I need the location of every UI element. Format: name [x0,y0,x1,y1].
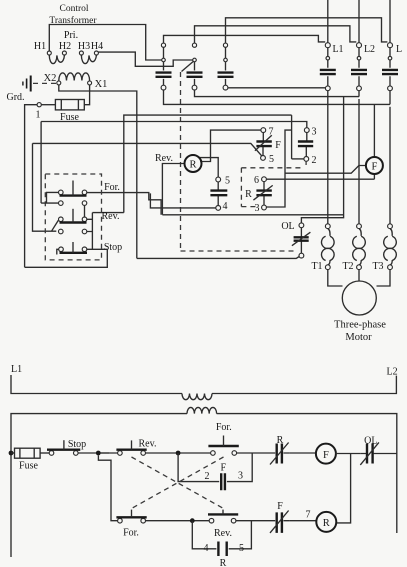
svg-text:Grd.: Grd. [6,92,24,103]
terminal 1 [37,103,41,107]
svg-text:Motor: Motor [345,332,372,343]
wire X2 common down [59,85,137,259]
pushbutton Rev NO ladder bottom [208,510,238,523]
power line L1 terminal [325,43,330,48]
label Three-phase Motor [334,320,386,344]
contact R NC 6-3 [253,177,272,210]
wire H1 to disconnect pole 1 hinge [49,25,161,61]
wire T3 to motor [377,270,391,286]
svg-text:3: 3 [255,203,260,214]
wire R coil return to OL feed [162,214,343,216]
coil F ladder [316,444,336,464]
transformer T1 secondary winding [59,73,90,81]
svg-text:R: R [220,558,227,567]
fuse ladder [11,448,40,458]
svg-text:Rev.: Rev. [155,153,173,164]
contact R NO 5-4 [210,177,227,210]
junction dot seal branch [176,451,181,456]
wire For pushbutton to R seal 4 [87,193,216,215]
wire stop right loop under station [25,249,108,267]
overload heater 3 [384,224,397,270]
label Control Transformer [49,4,97,41]
contact OL NC ladder [360,442,397,465]
svg-text:7: 7 [269,127,274,138]
wire H4 to disconnect pole 2 hinge [98,52,192,66]
svg-text:OL: OL [281,221,294,232]
svg-text:Rev.: Rev. [139,439,157,450]
contact F NC 7-5 [255,128,272,161]
svg-text:F: F [221,463,227,474]
overload heater 2 [353,224,366,270]
ladder transformer secondary [187,407,217,413]
svg-text:F: F [275,140,281,151]
pushbutton Stop NC [59,242,87,253]
wire X1 to fuse [84,85,89,105]
wire motor line 2 [358,99,360,224]
dashed mechanical link X [132,457,224,509]
wire station Rev link zigzag [52,220,59,231]
wire stop left stub [57,249,59,254]
svg-text:H3: H3 [78,41,90,52]
pushbutton station dashed box [45,174,101,260]
svg-text:7: 7 [306,510,311,521]
pushbutton Rev NO row [59,229,87,234]
coil R ladder [316,512,336,532]
dashed mechanical linkage vertical [181,72,297,251]
transformer T1 primary terminals [47,51,98,55]
terminal X2 [57,81,61,85]
contact R NC ladder [269,443,290,465]
pushbutton Rev NC row [59,209,87,223]
wire riser rung1 to rung2 [98,456,117,521]
svg-text:L2: L2 [364,44,375,55]
svg-text:Rev.: Rev. [214,528,232,539]
wire junction to Rev NC [101,452,118,454]
svg-text:Stop: Stop [68,439,86,450]
svg-text:R: R [277,435,284,446]
overload heater 1 [322,224,335,270]
svg-text:Stop: Stop [104,242,122,253]
wire dashed ground to X2 [33,82,56,84]
svg-text:L1: L1 [332,44,343,55]
svg-text:X1: X1 [95,79,108,90]
wire stop to junction [78,452,109,454]
ground symbol [23,76,31,92]
wire left pole1 output bus [164,90,391,104]
contact R seal plates [218,542,226,557]
svg-text:4: 4 [204,543,209,554]
label H1 H2 H3 H4 [34,41,103,52]
wire top rail L2 [212,376,396,394]
wire top rail L1 [11,375,182,394]
fused disconnect right pole 1 [320,48,336,91]
svg-text:L1: L1 [11,364,22,375]
terminal X1 [88,81,92,85]
wire Rev bottom to F NC [236,520,269,522]
pushbutton For NC row [59,181,87,196]
wire R seal 5 to R node [199,158,218,177]
svg-text:T2: T2 [342,261,353,272]
svg-text:6: 6 [254,175,259,186]
junction riser R coil [336,454,351,523]
ladder transformer primary [182,394,212,400]
svg-text:Pri.: Pri. [64,30,78,41]
wire 6 to F coil bottom [267,174,375,179]
svg-text:3: 3 [312,127,317,138]
wire hot corner bus to station [124,115,292,213]
disconnect switch left pole 1 [156,43,172,90]
contact OL NC [292,223,311,258]
svg-text:R: R [323,518,330,529]
svg-text:T1: T1 [311,261,322,272]
wire second rail right [217,414,397,533]
power line drops from top [328,0,390,43]
three-phase motor [342,281,376,315]
wire pole2 top to L2 [195,26,357,43]
junction dot rail rung [9,451,14,456]
svg-text:Control: Control [59,4,88,14]
svg-text:1: 1 [36,110,41,121]
pushbutton For NO row [59,201,87,206]
wire For NO right to Rev NC right [84,205,86,217]
wire bus 122 to NO contact 3 [41,122,307,128]
svg-text:5: 5 [269,154,274,165]
wire F coil to OL [335,453,360,455]
wire hot branch to F NC contact 5 [33,143,263,231]
svg-text:H2: H2 [59,41,71,52]
svg-text:Three-phase: Three-phase [334,320,386,331]
svg-text:For.: For. [104,182,120,193]
power line L2 terminal [357,43,362,48]
pushbutton For NC ladder bottom [116,510,146,523]
wire branch down to OL feed [301,97,343,223]
wire control return to OL [137,257,299,259]
wire Rev to For [146,452,211,454]
svg-text:L: L [396,44,402,55]
wire branch down to F coil [373,104,375,157]
svg-text:H1: H1 [34,41,46,52]
svg-text:3: 3 [238,471,243,482]
svg-text:4: 4 [223,201,228,212]
wire T1 to motor [328,270,343,286]
svg-text:F: F [277,501,283,512]
svg-text:OL: OL [364,436,377,447]
svg-text:F: F [371,162,377,173]
transformer T1 primary winding H1-H2 [49,55,64,63]
junction dot seal branch bottom [190,518,195,523]
wire 7 to R coil right [200,130,261,161]
junction dot after stop [96,451,101,456]
wire For to R contact [237,452,269,454]
svg-text:Fuse: Fuse [19,461,38,472]
svg-text:H4: H4 [91,41,103,52]
pushbutton Stop ladder NC [47,440,80,455]
wire motor line 3 [389,107,391,224]
svg-text:For.: For. [123,528,139,539]
wire R coil left down [162,164,184,215]
wire motor line 1 [327,91,329,224]
dashed enclosure box right [241,162,306,207]
wire tap to F coil left with jog [285,166,366,174]
wire fuse to stop [40,452,49,454]
svg-text:5: 5 [225,176,230,187]
svg-text:For.: For. [216,422,232,433]
wire left pole3 output to right pole1 [228,87,326,89]
disconnect switch left pole 3 [218,43,234,90]
wire F NC to R coil [290,520,317,522]
wire fuse to terminal 1 [41,104,55,106]
svg-text:5: 5 [239,543,244,554]
contact F NO 3-2 [298,128,313,162]
wire T2 to motor [358,270,360,281]
coil R [185,155,202,172]
wire pole1 top to L1 [164,35,326,43]
contact F seal plates [221,473,225,490]
svg-text:Rev.: Rev. [102,211,120,222]
wire station For link [41,192,58,203]
fuse control secondary [55,100,84,110]
seal branch R 4-5 [192,521,251,549]
pushbutton Rev NC ladder [116,440,146,455]
wire Rev rows to common riser [87,219,93,231]
wire left pole2 output bus [195,90,360,97]
seal branch F 2-3 [178,453,252,482]
svg-text:X2: X2 [44,73,57,84]
wire terminal 1 hot down left side [25,105,37,268]
contact F NC ladder [269,511,290,533]
disconnect switch left pole 2 with open blade [182,43,203,90]
svg-text:R: R [189,160,196,171]
transformer T1 primary winding H3-H4 [81,55,96,63]
wire R contact to F coil [290,452,316,454]
fused disconnect right pole 3 [382,48,398,91]
svg-text:2: 2 [312,155,317,166]
svg-text:2: 2 [205,471,210,482]
wire For bottom to Rev bottom [146,520,210,522]
svg-text:F: F [323,450,329,461]
power line L3 terminal [388,43,393,48]
wire F hot node vertical [267,115,292,207]
fused disconnect right pole 2 [351,48,367,91]
svg-text:T3: T3 [372,261,383,272]
pushbutton For NO ladder [208,436,238,456]
svg-text:R: R [245,189,252,200]
wire second rail left [11,414,187,557]
wire pole3 top to L3 [226,18,388,43]
wire tap to NO contact 2 [292,158,304,160]
coil F [366,157,383,174]
